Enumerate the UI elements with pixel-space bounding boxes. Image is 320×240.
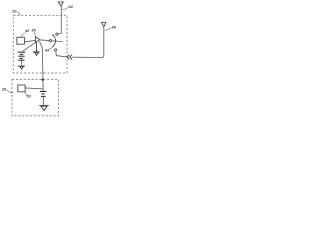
wire: battery B1 to ground xyxy=(21,60,23,66)
leader for label 40 xyxy=(21,32,25,37)
wire: switch wiper arm xyxy=(52,40,63,43)
battery B2 in clock unit xyxy=(40,92,47,97)
dashed enclosure box 10 (RF unit) xyxy=(13,15,67,73)
oscillator box 50 xyxy=(18,85,25,92)
svg-text:50: 50 xyxy=(26,93,31,98)
arrowhead bottom of arc xyxy=(52,45,54,47)
switch top contact (to antenna 60) xyxy=(56,33,58,35)
switch bottom contact (to connector) xyxy=(55,49,57,51)
wire: long vertical to clock unit xyxy=(41,48,44,92)
junction dot at box 20 boundary xyxy=(42,79,44,81)
battery B1 below box 40 xyxy=(18,52,26,60)
svg-text:20: 20 xyxy=(1,86,7,91)
antenna 48 xyxy=(102,22,107,26)
wire: box 50 to vertical wire xyxy=(25,88,43,89)
wire: battery B2 to ground xyxy=(42,96,44,105)
leader for label 30 xyxy=(34,32,35,37)
wire: bottom contact to connector xyxy=(56,51,67,57)
dashed enclosure box 20 (clock unit) xyxy=(12,79,59,115)
wire: box 40 output to amplifier input xyxy=(25,40,36,41)
leader arrow for label 20 xyxy=(6,90,12,93)
coax connector chevron 2 xyxy=(70,55,72,60)
wire: connector to external antenna 48 xyxy=(72,27,103,58)
svg-text:48: 48 xyxy=(110,24,116,29)
arrowhead top of arc xyxy=(52,34,54,36)
leader for label 48 xyxy=(105,28,111,30)
svg-text:30: 30 xyxy=(31,28,36,33)
leader for label 42 xyxy=(48,47,52,49)
crystal box 40 xyxy=(17,37,25,44)
leader for label 10 xyxy=(16,12,20,15)
wire: amp input feedback diagonal to battery B1 xyxy=(23,42,36,51)
ground in clock unit xyxy=(39,106,48,111)
coax connector chevron 1 xyxy=(67,55,69,60)
switch 42 throw arc xyxy=(53,35,56,47)
wire: amplifier output rail to switch pole xyxy=(40,39,50,42)
svg-text:42: 42 xyxy=(44,47,50,52)
ground below amplifier 30 xyxy=(33,42,40,55)
wire: antenna 60 feed line xyxy=(58,6,61,34)
leader for label 50 xyxy=(25,92,27,95)
svg-text:60: 60 xyxy=(68,4,73,9)
antenna 60 xyxy=(58,2,63,6)
leader for label 60 xyxy=(62,8,68,10)
svg-text:10: 10 xyxy=(12,9,17,14)
wire: output branch diagonal down xyxy=(39,41,42,47)
switch pole node xyxy=(49,40,51,42)
amplifier 30 xyxy=(35,37,40,43)
ground below battery B1 xyxy=(18,66,25,69)
